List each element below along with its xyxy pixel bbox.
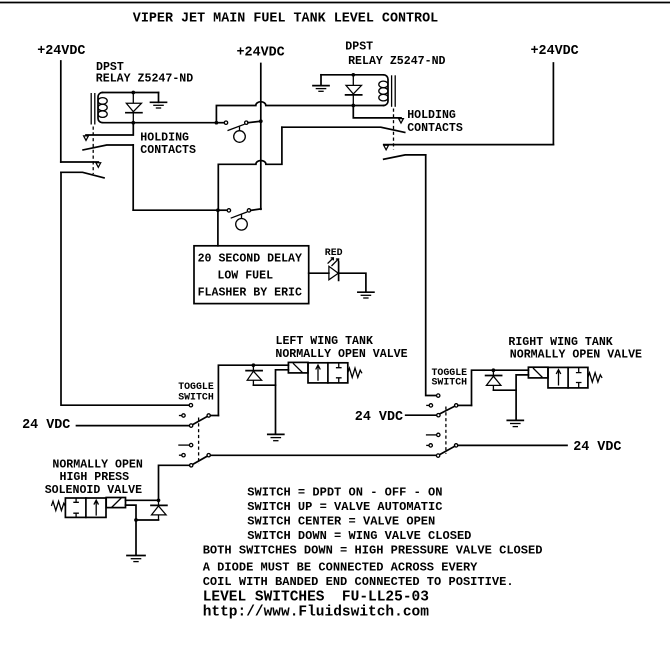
relay K1 contact pole1 fixed wire — [86, 123, 133, 135]
valve V2 body squares — [548, 367, 588, 388]
junction diode D4 node — [492, 368, 496, 372]
ground valve V2 — [507, 420, 523, 426]
toggle SW2 poleB blade — [440, 446, 455, 454]
toggle SW1 poleB common terminal — [207, 454, 210, 457]
wire diode D5 anode to valve V3 return — [136, 519, 159, 521]
level switch LS1 float — [234, 127, 246, 143]
svg-text:DPST: DPST — [345, 41, 373, 54]
ground relay K1 — [151, 93, 167, 109]
wire valve V1 return to ground — [276, 370, 289, 434]
junction LS1 on +24VDC rail — [259, 119, 263, 123]
wire valve V2 return to ground — [516, 375, 528, 420]
svg-text:HIGH PRESS: HIGH PRESS — [60, 471, 130, 484]
level switch LS1 left terminal wire — [216, 122, 224, 124]
relay K2 contact pole2 arrow — [384, 145, 389, 150]
relay K1 mechanical link (dashed) — [92, 127, 94, 175]
svg-text:VIPER JET MAIN FUEL TANK LEVEL: VIPER JET MAIN FUEL TANK LEVEL CONTROL — [133, 12, 438, 27]
toggle SW2 poleB common terminal — [454, 444, 457, 447]
junction relay K1 top diode node — [131, 91, 135, 95]
svg-text:RED: RED — [325, 247, 343, 258]
svg-text:FLASHER BY ERIC: FLASHER BY ERIC — [198, 287, 302, 300]
diode D5 (across valve V3 coil) — [151, 500, 167, 520]
svg-text:LOW FUEL: LOW FUEL — [217, 270, 273, 283]
svg-text:SWITCH: SWITCH — [432, 376, 468, 387]
valve V3 flow arrow — [94, 500, 99, 515]
diode D2 (across relay K2 coil) — [346, 75, 362, 106]
svg-text:LEFT WING TANK: LEFT WING TANK — [276, 335, 373, 348]
relay K1 contact pole2 fixed wire — [61, 161, 99, 163]
valve V1 flow arrow — [316, 365, 321, 381]
svg-text:http://www.Fluidswitch.com: http://www.Fluidswitch.com — [203, 605, 430, 621]
relay K1 contact pole1 arrow — [84, 136, 89, 141]
title border line — [0, 2, 670, 4]
svg-text:24 VDC: 24 VDC — [355, 410, 403, 425]
svg-text:20 SECOND DELAY: 20 SECOND DELAY — [198, 252, 302, 265]
junction LS2 left node — [216, 208, 220, 212]
toggle SW1 poleB up terminal — [178, 443, 193, 446]
valve V3 spring — [51, 501, 65, 510]
wire relay K2 pole2 blade down to toggle SW2 — [426, 155, 437, 396]
valve V1 blocked ports — [336, 363, 342, 383]
wire SW2 poleA common to riser — [458, 404, 472, 406]
svg-text:+24VDC: +24VDC — [37, 44, 85, 59]
wire left rail to toggle SW1 — [61, 172, 189, 405]
wire SW1 poleB common to SW2 poleB down — [210, 454, 436, 456]
wire relay K1 top (coil to ground) — [102, 92, 158, 94]
wire diode D4 anode to valve V2 return — [493, 389, 516, 391]
svg-text:RIGHT WING TANK: RIGHT WING TANK — [508, 336, 612, 349]
toggle SW1 poleB down terminal — [190, 464, 193, 467]
toggle SW2 poleB up terminal — [426, 433, 440, 436]
junction diode D3 node — [252, 363, 256, 367]
relay K1 contact pole2 blade — [61, 172, 104, 178]
wire LS1 right terminal to +24VDC rail — [248, 121, 261, 123]
svg-text:RELAY Z5247-ND: RELAY Z5247-ND — [348, 55, 445, 68]
diode D4 (across valve V2 coil) — [486, 370, 502, 390]
toggle SW1 mechanical link (dashed) — [198, 418, 200, 465]
diode D3 (across valve V1 coil) — [246, 365, 262, 385]
svg-text:HOLDING: HOLDING — [407, 109, 456, 122]
wire valve V3 coil top — [126, 499, 159, 501]
svg-text:SWITCH UP = VALVE AUTOMATIC: SWITCH UP = VALVE AUTOMATIC — [247, 500, 442, 514]
svg-text:HOLDING: HOLDING — [140, 131, 189, 144]
toggle SW2 poleB down terminal — [436, 454, 439, 457]
toggle SW1 poleA common terminal — [207, 414, 210, 417]
wire toggle SW1 riser to valve V1 — [218, 365, 288, 415]
level switch LS1 left terminal — [224, 121, 227, 124]
junction valve V3 return node — [134, 518, 138, 522]
svg-text:SOLENOID VALVE: SOLENOID VALVE — [45, 484, 142, 497]
svg-text:BOTH SWITCHES DOWN = HIGH PRES: BOTH SWITCHES DOWN = HIGH PRESSURE VALVE… — [203, 543, 543, 557]
wire relay K2 top (ground to coil) — [321, 74, 384, 76]
wire +24VDC right vertical — [552, 63, 554, 145]
toggle SW2 poleA common terminal — [455, 404, 458, 407]
svg-text:SWITCH DOWN = WING VALVE CLOSE: SWITCH DOWN = WING VALVE CLOSED — [247, 529, 471, 543]
relay K1 coil — [98, 93, 107, 123]
ground valve V1 — [268, 434, 284, 440]
toggle SW2 mechanical link (dashed) — [445, 407, 447, 454]
svg-text:CONTACTS: CONTACTS — [407, 122, 463, 135]
wire LS2 right terminal to +24VDC rail — [251, 209, 261, 211]
wire 24 VDC left feed — [77, 425, 190, 427]
toggle SW1 poleA blade — [193, 417, 207, 425]
wire valve V3 return to ground — [126, 505, 137, 555]
toggle SW2 poleA up terminal — [437, 394, 440, 397]
level switch LS2 blade — [231, 212, 248, 218]
level switch LS1 blade — [228, 124, 245, 130]
wire SW1 poleA common to riser — [210, 415, 218, 417]
wire 24 VDC middle feed — [406, 414, 437, 416]
svg-text:RELAY Z5247-ND: RELAY Z5247-ND — [96, 73, 193, 86]
toggle SW2 poleA blade — [440, 406, 455, 413]
svg-text:NORMALLY OPEN VALVE: NORMALLY OPEN VALVE — [510, 348, 642, 361]
relay K1 contact pole2 arrow — [96, 163, 101, 168]
ground valve V3 — [127, 556, 145, 562]
relay K2 coil — [379, 75, 388, 106]
relay K2 contact pole2 fixed wire — [384, 144, 554, 146]
wire relay K1 bottom (coil to level switch LS1) — [102, 122, 216, 124]
junction relay K2 bottom diode node — [351, 104, 355, 108]
valve V3 solenoid box — [106, 498, 125, 508]
wire SW1 poleB down to valve V3 — [159, 465, 190, 500]
toggle SW2 poleA down terminal — [437, 414, 440, 417]
svg-text:CONTACTS: CONTACTS — [140, 144, 196, 157]
toggle SW2 poleB center terminal — [426, 444, 432, 447]
svg-text:A DIODE MUST BE CONNECTED ACRO: A DIODE MUST BE CONNECTED ACROSS EVERY — [203, 561, 478, 575]
ground LED — [358, 292, 374, 298]
level switch LS2 right terminal — [247, 209, 250, 212]
level switch LS1 right terminal — [245, 121, 248, 124]
wire toggle SW2 riser to valve V2 — [472, 370, 529, 405]
relay K2 contact pole1 fixed wire — [353, 106, 401, 118]
junction relay K1 bottom diode node — [131, 121, 135, 125]
svg-text:SWITCH: SWITCH — [178, 392, 214, 403]
toggle SW1 poleA up terminal — [189, 404, 192, 407]
relay K2 contact pole2 blade — [384, 155, 426, 159]
toggle SW1 poleB blade — [193, 456, 207, 464]
valve V2 solenoid box — [528, 367, 548, 378]
junction relay K2 feed node on K1 bottom wire — [215, 121, 219, 125]
level switch LS2 float — [236, 214, 248, 230]
valve V3 body squares — [65, 498, 106, 517]
svg-text:LEVEL SWITCHES FU-LL25-03: LEVEL SWITCHES FU-LL25-03 — [203, 590, 429, 606]
wire relay K1 pole1 blade down to LS2 node — [132, 145, 134, 210]
valve V1 body squares — [308, 363, 348, 383]
relay K2 core — [392, 75, 396, 107]
wire LED to ground — [339, 273, 366, 292]
flasher box U1 — [194, 246, 309, 304]
level switch LS2 left terminal wire — [218, 209, 227, 211]
toggle SW1 poleA center terminal — [179, 414, 185, 417]
LED D6 — [328, 258, 339, 281]
relay K2 contact pole1 arrow — [399, 119, 404, 124]
svg-text:24 VDC: 24 VDC — [22, 418, 70, 433]
svg-text:SWITCH CENTER = VALVE OPEN: SWITCH CENTER = VALVE OPEN — [247, 514, 435, 528]
level switch LS2 left terminal — [227, 209, 230, 212]
relay K1 contact pole1 blade — [83, 145, 133, 150]
toggle SW1 poleB center terminal — [179, 454, 185, 457]
wire +24VDC middle vertical rail — [260, 64, 262, 210]
wire relay K2 pole1 blade to LS2 node (hops +24VDC rail) — [218, 127, 282, 210]
svg-text:24 VDC: 24 VDC — [573, 440, 621, 455]
wire +24VDC left vertical — [60, 61, 62, 162]
ground relay K2 — [313, 75, 329, 92]
wire flasher box to LED — [309, 272, 329, 274]
relay K2 mechanical link (dashed) — [393, 109, 395, 150]
wire SW2 poleB common to 24 VDC right — [458, 444, 567, 446]
relay K2 contact pole1 blade — [282, 127, 405, 132]
wire diode D3 anode to valve V1 return — [253, 384, 275, 386]
toggle SW1 poleA down terminal — [189, 424, 192, 427]
valve V2 blocked ports — [576, 367, 582, 388]
svg-text:+24VDC: +24VDC — [237, 46, 285, 61]
diode D1 (across relay K1 coil) — [126, 93, 142, 123]
wire K1 pole1 blade to LS2 node — [133, 209, 218, 211]
junction relay K2 top diode node — [351, 73, 355, 77]
wire LS2 node down to flasher box — [217, 210, 219, 246]
svg-text:SWITCH = DPDT ON - OFF - ON: SWITCH = DPDT ON - OFF - ON — [247, 485, 442, 499]
valve V2 flow arrow — [556, 370, 561, 386]
valve V2 spring — [588, 373, 602, 382]
junction diode D5 node — [157, 498, 161, 502]
svg-text:+24VDC: +24VDC — [531, 44, 579, 59]
svg-text:COIL WITH BANDED END CONNECTED: COIL WITH BANDED END CONNECTED TO POSITI… — [203, 575, 514, 589]
relay K1 core — [91, 93, 95, 125]
valve V3 blocked ports — [73, 498, 79, 517]
svg-text:NORMALLY OPEN VALVE: NORMALLY OPEN VALVE — [275, 348, 407, 361]
toggle SW2 poleA center terminal — [426, 404, 432, 407]
wire relay K2 bottom (LS1 node to coil, hops +24VDC rail) — [216, 102, 383, 123]
valve V1 solenoid box — [288, 362, 308, 373]
valve V1 spring — [348, 368, 362, 377]
svg-text:NORMALLY OPEN: NORMALLY OPEN — [52, 459, 142, 472]
